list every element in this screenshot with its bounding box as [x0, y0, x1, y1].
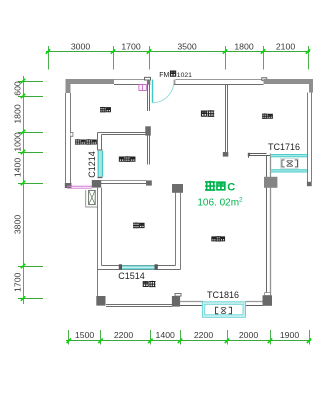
left dimension slash markers [21, 79, 25, 301]
window C1514 jambs [119, 264, 122, 269]
bathroom label [119, 157, 123, 161]
svg-text:TC1816: TC1816 [207, 290, 239, 300]
svg-text:2000: 2000 [239, 330, 258, 340]
window TC1816 symbol cross [221, 308, 226, 314]
bottom dimension labels [75, 330, 299, 340]
entry door leaf [152, 80, 154, 103]
balcony left column [96, 296, 105, 306]
svg-text:1900: 1900 [280, 330, 299, 340]
bay window TC1716 symbol box [281, 159, 299, 169]
lintel notch at thick wall start [262, 78, 267, 81]
door left jamb notch [145, 77, 151, 80]
bay window TC1716 symbol cross [287, 161, 293, 166]
balcony open edge magenta railing [67, 185, 92, 187]
left exterior wall thick top [66, 79, 71, 93]
left dimension ticks [18, 82, 43, 299]
svg-text:2100: 2100 [276, 42, 295, 52]
top wall thin segment kitchen to door [114, 79, 146, 81]
svg-text:1400: 1400 [13, 158, 23, 177]
bottom dimension slash markers [67, 339, 312, 343]
left exterior wall double line [65, 93, 67, 188]
bay window TC1716 bottom band [271, 169, 308, 172]
svg-text:1021: 1021 [177, 72, 192, 79]
top wall thick right segment [264, 79, 314, 84]
door left jamb fill [147, 80, 150, 85]
shaft niche walls [85, 190, 87, 207]
bay window TC1716 symbol brackets [282, 160, 285, 167]
balcony right column [172, 296, 180, 307]
living room bottom wall right segment [246, 301, 263, 303]
svg-text:FM: FM [159, 72, 169, 79]
svg-text:3000: 3000 [71, 42, 90, 52]
window C1514 [122, 265, 155, 269]
top wall thick left segment [66, 79, 114, 84]
left wall end block [65, 183, 72, 188]
svg-text:1700: 1700 [121, 42, 140, 52]
living room right wall [266, 156, 268, 296]
bathroom right wall [147, 136, 149, 165]
bottom dimension line [66, 340, 311, 342]
svg-text:C1214: C1214 [87, 151, 97, 178]
window C1214 [98, 151, 103, 177]
bathroom top-left corner verticals [97, 133, 99, 151]
bedroom2 bottom wall [102, 265, 176, 267]
left dimension line [23, 76, 25, 304]
bathroom top wall [98, 132, 146, 134]
kitchen label [101, 107, 106, 112]
svg-text:106. 02m2: 106. 02m2 [197, 197, 243, 209]
top dimension ticks [49, 46, 309, 70]
bedroom1 bottom wall [249, 153, 267, 155]
unit title [206, 182, 215, 190]
svg-text:600: 600 [13, 81, 23, 96]
dining label [201, 111, 206, 116]
living room bottom-right column notch [265, 293, 271, 296]
kitchen door jamb block [145, 126, 151, 135]
bathroom bottom-right block [146, 180, 152, 185]
duct box with cross [89, 190, 96, 204]
window TC1816 box [202, 302, 245, 317]
top dimension slash markers [46, 49, 310, 53]
window C1214 jamb top [98, 149, 103, 150]
svg-text:1800: 1800 [13, 104, 23, 123]
svg-text:1800: 1800 [234, 42, 253, 52]
svg-text:1500: 1500 [75, 330, 94, 340]
bay window right wall end block [307, 182, 312, 186]
svg-text:3800: 3800 [13, 215, 23, 234]
svg-text:1700: 1700 [13, 272, 23, 291]
top dimension line [46, 51, 310, 53]
shaft column below bathroom [92, 180, 101, 188]
dining bedroom divider wall [225, 85, 227, 153]
svg-text:1400: 1400 [156, 330, 175, 340]
left wall notch at balcony level [71, 132, 73, 136]
left dimension labels [13, 81, 23, 292]
bedroom2 left wall [97, 188, 99, 296]
svg-text:C1514: C1514 [118, 271, 145, 281]
living room bottom wall left segment [180, 301, 203, 303]
divider wall end block [223, 152, 229, 157]
entry door swing arc [153, 82, 174, 103]
kitchen right wall [147, 85, 149, 112]
balcony2 label [143, 282, 148, 287]
top wall thin segment door to corner [176, 79, 264, 81]
svg-text:C: C [227, 181, 235, 193]
bay window junction column [264, 177, 277, 188]
bedroom1 bottom wall left stub [248, 154, 250, 158]
window C1214 jamb bottom [98, 177, 103, 179]
balcony label [75, 140, 80, 145]
bay window right wall [307, 93, 309, 183]
top dimension labels [71, 42, 295, 52]
balcony right column notch [175, 293, 181, 296]
svg-text:2200: 2200 [114, 330, 133, 340]
svg-text:TC1716: TC1716 [268, 142, 300, 152]
bottom dimension ticks [69, 330, 310, 345]
window TC1816 symbol brackets [216, 307, 219, 314]
kitchen flue magenta box [139, 85, 146, 91]
svg-text:2200: 2200 [194, 330, 213, 340]
living room label [212, 237, 216, 241]
right wall thick top piece [309, 84, 313, 93]
bedroom1 label [263, 114, 268, 118]
balcony parapet [106, 304, 172, 306]
svg-text:1000: 1000 [13, 132, 23, 151]
svg-text:3500: 3500 [177, 42, 196, 52]
bay window TC1716 top band [271, 154, 308, 157]
bedroom2 top-right column [172, 184, 183, 193]
bedroom2 right wall [175, 193, 177, 266]
door right jamb mark [174, 80, 176, 85]
living room bottom-right column [263, 295, 273, 306]
bedroom2 label [134, 223, 139, 228]
bathroom bottom wall [101, 180, 146, 182]
bedroom1 bottom wall left end cap [248, 153, 250, 156]
